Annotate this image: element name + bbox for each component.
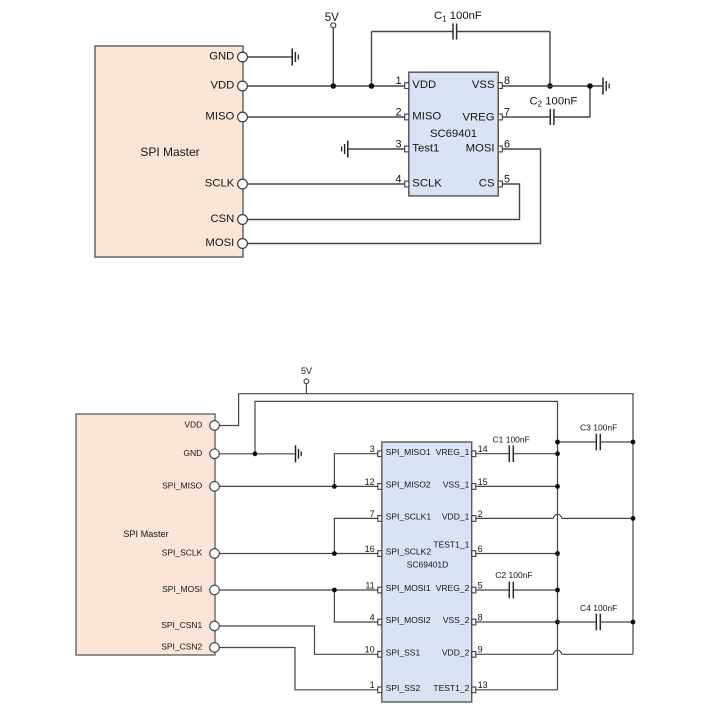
SPI Master box (top) [95, 46, 243, 257]
wire MISO net (master MISO to chip pin 2) [247, 116, 405, 118]
junction C1 right-VSS [547, 83, 553, 89]
pin SPI_CSN1 of bottom master [161, 620, 219, 631]
svg-text:VREG: VREG [462, 112, 494, 124]
svg-text:SPI_MOSI: SPI_MOSI [162, 584, 202, 594]
junction 5V-VDD [331, 83, 337, 89]
pin 16 SPI_SCLK2 (U2) [365, 544, 432, 557]
pin CSN of top master [210, 213, 247, 225]
wire master GND to ground symbol [215, 453, 295, 455]
junction MISO link [332, 484, 337, 489]
wire SPI_MOSI net (master to pin 11) [215, 589, 378, 591]
svg-text:C2 100nF: C2 100nF [495, 570, 532, 580]
svg-text:5V: 5V [325, 12, 339, 24]
wire TEST1_2 net (pin 13 to GND bus) [476, 689, 558, 691]
pin 14 VREG_1 (U2) [436, 444, 488, 457]
svg-text:SC69401D: SC69401D [407, 560, 449, 570]
wire CS net (chip pin 5 to master CSN) [247, 184, 520, 220]
svg-text:12: 12 [365, 477, 375, 487]
svg-text:SPI_CSN1: SPI_CSN1 [161, 620, 202, 630]
capacitor C1 (bottom, VREG_1) [476, 434, 558, 462]
wire GND net (top master GND to ground) [247, 56, 292, 58]
svg-text:13: 13 [478, 680, 488, 690]
svg-text:MOSI: MOSI [205, 237, 234, 249]
pin VDD of top master [210, 79, 247, 91]
capacitor C3 (GND bus to 5V bus) [558, 423, 634, 451]
wire VDD_2 net (pin 9 to 5V bus, hops GND bus) [476, 650, 633, 654]
svg-text:8: 8 [478, 612, 483, 622]
junction C4-5V bus [631, 620, 636, 625]
5V supply (bottom) [301, 366, 312, 394]
junction SCLK link [332, 551, 337, 556]
svg-text:4: 4 [370, 612, 375, 622]
svg-text:6: 6 [478, 544, 483, 554]
svg-text:C3 100nF: C3 100nF [580, 423, 617, 433]
IC U1 SC69401 (top chip) [409, 72, 498, 196]
svg-text:GND: GND [209, 50, 234, 62]
svg-text:VSS_2: VSS_2 [443, 615, 470, 625]
svg-text:C1 100nF: C1 100nF [434, 10, 482, 23]
svg-text:SPI_SCLK1: SPI_SCLK1 [386, 512, 432, 522]
svg-text:SPI_SCLK: SPI_SCLK [162, 548, 203, 558]
pin SPI_MISO of bottom master [162, 481, 219, 492]
ground symbol (VSS net, top right) [603, 78, 609, 95]
svg-text:SPI Master: SPI Master [123, 529, 168, 539]
pin 4 SPI_MOSI2 (U2) [370, 612, 431, 625]
svg-text:5V: 5V [301, 366, 312, 376]
wire VSS net (chip pin 8 to ground) [502, 85, 602, 87]
svg-text:CSN: CSN [210, 213, 234, 225]
svg-text:VSS: VSS [472, 79, 495, 91]
svg-text:7: 7 [504, 107, 510, 119]
svg-text:3: 3 [370, 444, 375, 454]
junction VREG_2-GND bus [555, 588, 560, 593]
svg-text:SC69401: SC69401 [430, 128, 477, 140]
pin 1 SPI_SS2 (U2) [370, 680, 421, 693]
svg-text:TEST1_2: TEST1_2 [433, 683, 469, 693]
junction GND rail [253, 451, 258, 456]
svg-text:TEST1_1: TEST1_1 [433, 539, 469, 549]
svg-text:3: 3 [395, 139, 401, 151]
svg-text:11: 11 [365, 580, 374, 590]
svg-text:VDD: VDD [210, 79, 234, 91]
wire GND net: master GND, rail to GND bus, bus down to TEST1_2 row [255, 401, 558, 689]
pin 5 VREG_2 (U2) [436, 580, 483, 593]
svg-text:SPI_SCLK2: SPI_SCLK2 [386, 547, 432, 557]
pin GND of top master [209, 50, 247, 62]
wire VSS_1 net (pin 15 to GND bus) [476, 485, 558, 487]
svg-text:14: 14 [478, 444, 488, 454]
wire TEST1_1 net (pin 6 to GND bus) [476, 553, 558, 555]
svg-text:5: 5 [504, 174, 510, 186]
ground symbol (bottom master GND) [296, 445, 302, 462]
junction TEST1_1-GND bus [555, 551, 560, 556]
svg-text:7: 7 [370, 509, 375, 519]
junction MOSI link [332, 588, 337, 593]
wire SPI_MISO net (master to pin 12) [215, 485, 378, 487]
svg-text:VDD_2: VDD_2 [442, 648, 470, 658]
svg-text:1: 1 [370, 680, 375, 690]
svg-text:SPI_MISO: SPI_MISO [162, 481, 203, 491]
pin 10 SPI_SS1 (U2) [365, 645, 421, 658]
pin 6 MOSI (U1) [466, 139, 510, 155]
svg-text:SPI_SS1: SPI_SS1 [386, 648, 421, 658]
pin 8 VSS_2 (U2) [443, 612, 483, 625]
pin VDD of bottom master [184, 420, 219, 431]
pin SPI_CSN2 of bottom master [161, 642, 219, 653]
ground symbol (Test1 pin) [342, 141, 348, 158]
pin SPI_SCLK of bottom master [162, 548, 220, 559]
svg-text:C1 100nF: C1 100nF [493, 434, 530, 444]
pin MOSI of top master [205, 237, 247, 249]
junction C1 left-VDD [369, 83, 375, 89]
junction VSS_1-GND bus [555, 484, 560, 489]
pin GND of bottom master [183, 448, 219, 459]
svg-text:SPI_MISO2: SPI_MISO2 [386, 480, 431, 490]
wire VDD_1 net (pin 2 to 5V bus, hops GND bus) [476, 514, 633, 518]
wire SPI_CSN2 net (master to pin 1) [215, 648, 378, 690]
pin 2 VDD_1 (U2) [442, 509, 483, 522]
svg-text:2: 2 [395, 107, 401, 119]
svg-text:6: 6 [504, 139, 510, 151]
svg-text:C2 100nF: C2 100nF [530, 95, 578, 108]
svg-text:Test1: Test1 [412, 143, 439, 155]
5V supply (top) [325, 12, 339, 86]
ground symbol (top master GND) [292, 49, 298, 66]
svg-text:SPI_MISO1: SPI_MISO1 [386, 447, 431, 457]
wire SPI_MISO1 link (pin 3 to MISO net) [334, 454, 377, 487]
wire VSS_2 net (pin 8 to GND bus and C4) [476, 621, 558, 623]
svg-text:VDD: VDD [412, 79, 436, 91]
svg-text:15: 15 [478, 477, 488, 487]
wire MOSI net (chip pin 6 to master MOSI) [247, 149, 541, 244]
svg-text:10: 10 [365, 645, 375, 655]
pin SPI_MOSI of bottom master [162, 584, 219, 595]
wire SCLK net (master SCLK to chip pin 4) [247, 183, 405, 185]
wire SPI_CSN1 net (master to pin 10) [215, 626, 378, 654]
svg-text:CS: CS [479, 178, 495, 190]
pin 9 VDD_2 (U2) [442, 645, 483, 658]
junction C2-VSS [587, 83, 593, 89]
svg-text:SCLK: SCLK [205, 177, 235, 189]
svg-text:VREG_2: VREG_2 [436, 583, 470, 593]
capacitor C4 (VSS_2 to 5V bus) [558, 603, 634, 630]
svg-text:VSS_1: VSS_1 [443, 480, 470, 490]
capacitor C2 (top) [502, 86, 590, 125]
svg-text:VDD: VDD [184, 420, 202, 430]
pin 2 MISO (U1) [395, 107, 441, 123]
svg-text:5: 5 [478, 580, 483, 590]
wire VDD net: master VDD up to 5V rail, rail to right bus, bus down to VDD_2 [215, 394, 634, 655]
wire SPI_SCLK1 link (pin 7 to SCLK net) [334, 518, 377, 553]
pin 1 VDD (U1) [395, 75, 436, 91]
pin SCLK of top master [205, 177, 248, 189]
junction VREG_1-GND bus [555, 451, 560, 456]
pin 7 VREG (U1) [462, 107, 510, 124]
svg-text:SCLK: SCLK [412, 178, 442, 190]
capacitor C1 (top) [372, 10, 551, 86]
svg-text:SPI_SS2: SPI_SS2 [386, 683, 421, 693]
SPI Master box (bottom) [76, 414, 215, 655]
junction C3-5V bus [631, 440, 636, 445]
pin 4 SCLK (U1) [395, 174, 442, 190]
svg-text:1: 1 [395, 75, 401, 87]
svg-text:2: 2 [478, 509, 483, 519]
svg-text:16: 16 [365, 544, 375, 554]
junction C3-GND bus [555, 440, 560, 445]
svg-text:MOSI: MOSI [466, 143, 495, 155]
capacitor C2 (bottom, VREG_2) [476, 570, 558, 598]
svg-text:SPI_CSN2: SPI_CSN2 [161, 642, 202, 652]
svg-text:MISO: MISO [205, 110, 234, 122]
pin 15 VSS_1 (U2) [443, 477, 488, 490]
svg-text:C4 100nF: C4 100nF [580, 603, 617, 613]
wire SPI_MOSI2 link (MOSI net to pin 4) [334, 590, 377, 622]
svg-text:8: 8 [504, 75, 510, 87]
pin 13 TEST1_2 (U2) [433, 680, 487, 693]
pin 7 SPI_SCLK1 (U2) [370, 509, 432, 522]
pin 5 CS (U1) [479, 174, 510, 190]
pin 3 SPI_MISO1 (U2) [370, 444, 431, 457]
pin 11 SPI_MOSI1 (U2) [365, 580, 430, 593]
pin 8 VSS (U1) [472, 75, 510, 91]
svg-text:VREG_1: VREG_1 [436, 447, 470, 457]
wire VDD net (master VDD to chip pin 1) [247, 85, 405, 87]
pin 6 TEST1_1 (U2) [433, 539, 482, 556]
svg-text:SPI Master: SPI Master [140, 145, 199, 159]
IC U2 SC69401D (bottom chip) [382, 442, 472, 702]
pin 3 Test1 (U1) [395, 139, 439, 155]
svg-text:9: 9 [478, 645, 483, 655]
svg-text:SPI_MOSI2: SPI_MOSI2 [386, 615, 431, 625]
pin MISO of top master [205, 110, 247, 122]
svg-text:MISO: MISO [412, 111, 441, 123]
pin 12 SPI_MISO2 (U2) [365, 477, 431, 490]
svg-text:4: 4 [395, 174, 401, 186]
svg-text:GND: GND [183, 448, 202, 458]
junction VSS_2-GND bus [555, 620, 560, 625]
junction VDD_1-5V bus [631, 516, 636, 521]
svg-text:VDD_1: VDD_1 [442, 512, 470, 522]
svg-text:SPI_MOSI1: SPI_MOSI1 [386, 583, 431, 593]
wire Test1 net (ground to chip pin 3) [348, 148, 405, 150]
wire SPI_SCLK net (master to pin 16) [215, 553, 378, 555]
